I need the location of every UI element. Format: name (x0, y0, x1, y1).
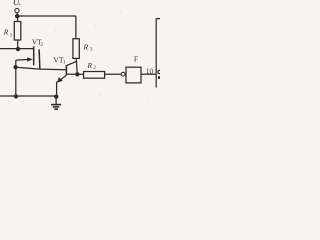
junction dot R1 bottom (16, 47, 20, 51)
svg-text:10: 10 (146, 67, 154, 75)
wire junction to R1 (17, 16, 19, 21)
inverter bubble (121, 72, 125, 76)
junction dot gate column (13, 65, 17, 69)
ground (55, 97, 57, 105)
svg-text:R: R (83, 42, 89, 51)
transistor VT1 label (53, 55, 66, 65)
wire VT1 to node R2 (67, 73, 75, 75)
wire R1 to node (17, 40, 19, 47)
svg-text:2: 2 (93, 66, 96, 71)
transistor VT1 base bar (65, 65, 67, 75)
wire rail down to R3 (75, 16, 77, 39)
wire R3 to node (76, 58, 77, 74)
ground rail (0, 95, 56, 97)
wire circle to junction (16, 13, 18, 15)
cropped text fragment right edge (158, 70, 161, 79)
resistor R3 (73, 39, 79, 59)
label R3 (83, 42, 94, 52)
transistor VT1 collector (67, 61, 77, 65)
wire gate node down (15, 60, 17, 96)
wire F output (141, 73, 156, 75)
gate F box (126, 67, 141, 83)
junction dot supply node (15, 14, 19, 18)
svg-text:+: + (18, 2, 21, 8)
label R2 (87, 61, 97, 71)
wire top rail (17, 15, 76, 17)
svg-text:1: 1 (63, 61, 66, 66)
svg-text:3: 3 (90, 47, 93, 52)
label F (134, 55, 138, 64)
transistor VT1 emitter with arrow (59, 75, 66, 81)
resistor R2 (84, 72, 105, 79)
junction dot emitter ground (54, 94, 58, 98)
svg-text:1: 1 (10, 33, 13, 38)
wire R2 to inverter bubble (105, 73, 122, 75)
transistor VT2 label (32, 39, 44, 48)
wire right vertical (155, 19, 157, 88)
node U+ label (13, 0, 21, 8)
svg-text:R: R (87, 61, 93, 70)
svg-text:F: F (134, 55, 138, 64)
wire VT2 source to VT1 base (16, 67, 66, 69)
svg-text:R: R (3, 28, 9, 37)
label 10 (146, 67, 154, 75)
wire gate with arrow (16, 59, 28, 62)
svg-text:2: 2 (41, 43, 44, 48)
wire node left edge to VT2 drain (0, 48, 34, 50)
junction dot collector node (75, 72, 79, 76)
transistor VT2 bar2 (38, 49, 41, 69)
label R1 (3, 28, 13, 39)
resistor R1 (14, 22, 20, 41)
wire emitter down (56, 81, 58, 96)
terminal circle U+ (15, 8, 19, 12)
junction dot left ground (14, 94, 18, 98)
wire node to R2 (77, 73, 83, 75)
transistor VT2 bar1 (33, 46, 35, 65)
wire top right stub (156, 18, 160, 20)
